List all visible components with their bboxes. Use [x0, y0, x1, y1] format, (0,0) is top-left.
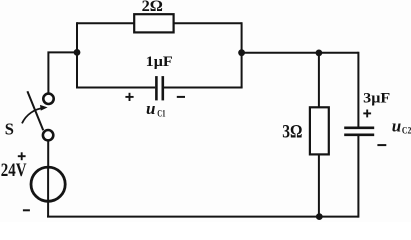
svg-text:3μF: 3μF: [363, 90, 390, 106]
svg-text:1μF: 1μF: [146, 54, 173, 70]
svg-text:24V: 24V: [1, 161, 27, 181]
switch S bottom contact: [43, 130, 53, 140]
wire right vertical x=241.6: [241, 22, 243, 87]
switch S top contact: [43, 94, 53, 104]
minus sign C2: [377, 144, 386, 146]
svg-text:2Ω: 2Ω: [142, 0, 163, 15]
switch blade: [27, 91, 43, 130]
minus sign source: [23, 209, 30, 211]
switch arrow arc: [22, 108, 45, 124]
switch arrowhead: [40, 105, 48, 111]
minus sign C1: [177, 96, 185, 98]
wire left vertical x=77: [76, 22, 78, 87]
wire capacitor branch left: [76, 87, 155, 89]
wire switch to source: [47, 141, 49, 167]
node dot C: [316, 50, 323, 57]
plus sign C1: [125, 93, 133, 101]
wire 3ohm branch lower: [318, 154, 320, 216]
wire bottom horizontal: [48, 216, 358, 217]
wire right branch upper: [357, 52, 359, 127]
resistor R 2ohm: [134, 14, 173, 32]
plus sign source: [18, 152, 26, 160]
svg-text:3Ω: 3Ω: [282, 123, 302, 143]
node dot A: [74, 49, 81, 56]
svg-text:S: S: [5, 119, 14, 138]
capacitor C1 plates: [156, 76, 162, 100]
wire right branch lower: [357, 136, 359, 218]
wire through source: [47, 167, 49, 217]
wire top right horizontal: [174, 22, 242, 24]
node dot D: [316, 213, 323, 220]
wire capacitor branch right: [164, 87, 243, 89]
svg-text:C1: C1: [157, 109, 166, 119]
svg-text:u: u: [146, 99, 155, 118]
source 24V circle: [31, 167, 65, 201]
node dot B: [238, 49, 245, 56]
svg-text:u: u: [392, 116, 401, 135]
resistor R 3ohm: [310, 107, 329, 154]
wire jog node to switch: [48, 52, 78, 93]
wire 3ohm branch upper: [318, 53, 320, 108]
wire middle horizontal y=52.7: [242, 52, 359, 54]
wire top left horizontal: [77, 22, 134, 24]
svg-text:C2: C2: [402, 126, 411, 136]
capacitor C2 plates: [344, 128, 374, 135]
plus sign C2: [363, 110, 371, 118]
